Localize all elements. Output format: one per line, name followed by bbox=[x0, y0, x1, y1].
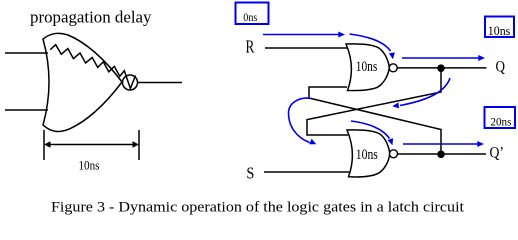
wire: U3 output to Q' bbox=[398, 153, 487, 155]
output bubble of U3 bbox=[390, 150, 398, 158]
blue box: 10ns (Q transition time) bbox=[485, 17, 514, 38]
NOR gate U1 (propagation delay illustration) bbox=[43, 33, 122, 131]
wire: R to U2 input bbox=[265, 47, 348, 49]
wire: U1 output bbox=[138, 82, 182, 84]
blue arrow 4: Q feedback travels left bbox=[400, 78, 450, 106]
blue arrow 5: loop around to U3 input bbox=[289, 98, 312, 142]
svg-text:10ns: 10ns bbox=[356, 147, 378, 163]
svg-text:10ns: 10ns bbox=[488, 23, 511, 38]
junction node Q' bbox=[437, 151, 445, 159]
NOR gate U2 (top, 10ns) bbox=[346, 44, 389, 91]
wire: U2 output to Q bbox=[397, 67, 486, 69]
svg-text:0ns: 0ns bbox=[243, 10, 257, 24]
wire: U1 input B bbox=[5, 109, 48, 111]
svg-text:20ns: 20ns bbox=[490, 114, 511, 128]
svg-text:Q: Q bbox=[496, 59, 506, 76]
svg-text:Q’: Q’ bbox=[490, 145, 505, 162]
dimension arrowhead left bbox=[44, 141, 51, 148]
wire: S to U3 input bbox=[264, 171, 350, 173]
blue arrow 6: through U3 (curved over gate) bbox=[351, 121, 390, 139]
dimension double arrow bbox=[46, 144, 137, 146]
blue box: 20ns (Q' transition time) bbox=[485, 107, 516, 128]
blue arrow 2: through U2 (curved over gate) bbox=[350, 34, 391, 51]
svg-text:10ns: 10ns bbox=[79, 158, 100, 172]
NOR gate U3 (bottom, 10ns) bbox=[347, 130, 390, 177]
dimension extension line left bbox=[43, 130, 45, 160]
blue arrow 1: R input transition at 0ns bbox=[263, 34, 339, 36]
blue arrow 7: Q' changes at 20ns bbox=[403, 143, 478, 145]
dimension arrowhead right bbox=[133, 141, 140, 148]
junction node Q bbox=[437, 64, 445, 72]
blue box: 0ns bbox=[236, 3, 269, 25]
svg-text:Figure 3 - Dynamic operation o: Figure 3 - Dynamic operation of the logi… bbox=[51, 200, 465, 216]
wire: feedback Q' to U2 lower input bbox=[309, 87, 441, 154]
blue arrow 3: Q changes at 10ns bbox=[402, 57, 479, 59]
svg-text:10ns: 10ns bbox=[356, 59, 378, 75]
dimension extension line right bbox=[138, 130, 140, 160]
output bubble of U2 bbox=[389, 64, 397, 72]
zigzag delay symbol inside U1 bbox=[50, 45, 135, 89]
svg-text:propagation delay: propagation delay bbox=[30, 8, 152, 27]
wire: feedback Q to U3 upper input bbox=[307, 68, 441, 135]
svg-text:R: R bbox=[246, 36, 255, 56]
output bubble of U1 bbox=[123, 75, 138, 90]
svg-text:S: S bbox=[246, 164, 254, 183]
wire: U1 input A bbox=[5, 52, 48, 54]
